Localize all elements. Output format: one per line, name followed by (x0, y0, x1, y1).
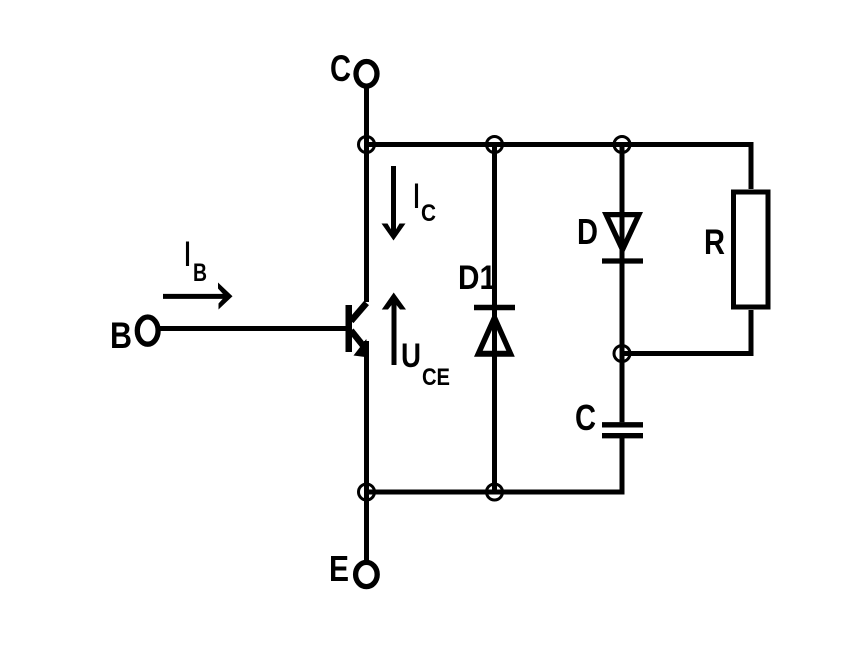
svg-text:C: C (421, 200, 436, 227)
svg-text:D: D (577, 211, 598, 252)
svg-text:CE: CE (422, 364, 450, 391)
svg-text:B: B (110, 315, 132, 356)
svg-text:I: I (414, 177, 420, 216)
svg-text:R: R (704, 223, 725, 262)
svg-text:U: U (401, 337, 421, 375)
svg-text:I: I (185, 235, 191, 274)
svg-text:D1: D1 (458, 259, 496, 297)
svg-text:E: E (329, 548, 349, 589)
svg-text:C: C (330, 48, 351, 89)
svg-text:C: C (575, 397, 596, 438)
svg-text:B: B (193, 259, 207, 287)
